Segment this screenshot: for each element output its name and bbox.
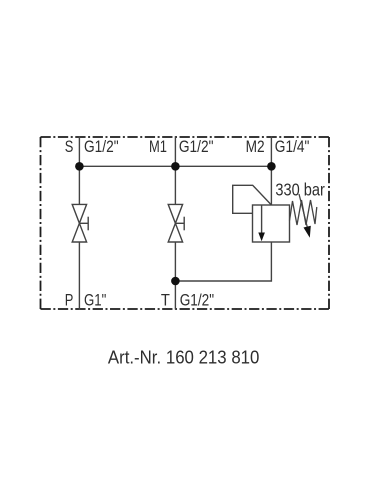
- wire top bus S to M2: [79, 165, 271, 167]
- wire valve V1 to P port stub: [78, 242, 80, 310]
- shut-off valve V2: [168, 204, 184, 242]
- junction node M1/bus: [171, 162, 180, 171]
- svg-text:330 bar: 330 bar: [275, 180, 325, 200]
- svg-text:T: T: [161, 292, 170, 310]
- svg-text:G1": G1": [84, 292, 107, 310]
- wire S port stub down to valve V1: [78, 136, 80, 204]
- junction node M2/bus: [267, 162, 276, 171]
- relief valve RV1 adjustment arrow: [299, 194, 311, 238]
- svg-text:G1/2": G1/2": [179, 138, 214, 156]
- svg-text:M1: M1: [149, 138, 167, 156]
- relief valve RV1 pilot line: [233, 185, 272, 213]
- relief valve RV1 flow arrow: [258, 205, 265, 241]
- svg-text:G1/2": G1/2": [84, 138, 119, 156]
- svg-text:G1/2": G1/2": [180, 292, 215, 310]
- relief valve RV1 spring: [290, 200, 317, 225]
- wire valve V2 to T port stub: [174, 242, 176, 310]
- svg-text:Art.-Nr. 160 213 810: Art.-Nr. 160 213 810: [108, 346, 260, 367]
- junction node T/return: [171, 277, 180, 286]
- enclosure boundary (dash-dot frame): [41, 137, 330, 309]
- svg-text:P: P: [65, 292, 74, 310]
- svg-text:M2: M2: [246, 138, 265, 156]
- junction node S/bus: [75, 162, 84, 171]
- wire relief valve RV1 outlet to T line: [175, 242, 271, 281]
- svg-text:G1/4": G1/4": [275, 138, 310, 156]
- relief valve RV1 body: [253, 205, 290, 242]
- wire M2 port stub down to relief valve RV1: [270, 136, 272, 205]
- svg-text:S: S: [65, 138, 74, 156]
- shut-off valve V1: [72, 204, 88, 242]
- wire M1 port stub down to valve V2: [174, 136, 176, 204]
